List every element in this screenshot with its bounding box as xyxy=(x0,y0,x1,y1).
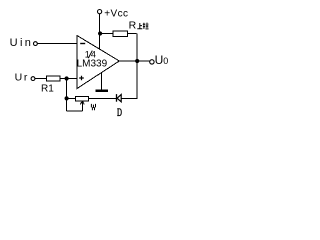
svg-text:U: U xyxy=(155,53,164,67)
svg-text:LM339: LM339 xyxy=(77,59,108,70)
svg-text:+Vcc: +Vcc xyxy=(104,9,128,20)
svg-text:Uin: Uin xyxy=(10,37,34,49)
svg-text:R: R xyxy=(129,20,137,32)
svg-text:R1: R1 xyxy=(41,83,54,94)
svg-text:0: 0 xyxy=(163,56,168,66)
svg-text:Ur: Ur xyxy=(15,71,29,83)
